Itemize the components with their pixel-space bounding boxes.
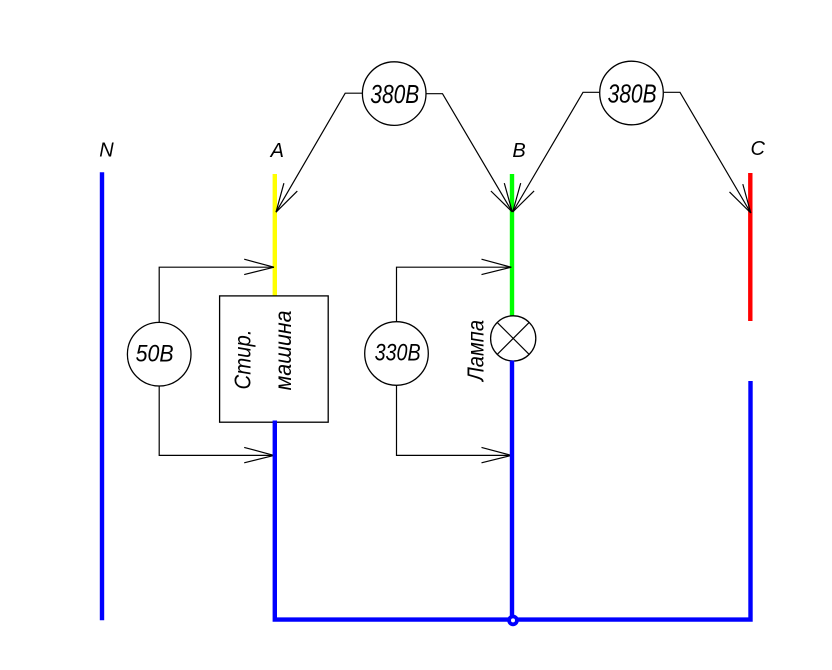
voltmeter V1 380В (between A and B) xyxy=(362,62,426,126)
wire phase B (green vertical) xyxy=(510,174,514,317)
svg-text:50В: 50В xyxy=(136,341,174,368)
svg-text:Стир.: Стир. xyxy=(230,330,256,390)
wire N neutral (blue vertical) xyxy=(100,172,104,620)
svg-text:Лампа: Лампа xyxy=(463,320,489,383)
wire phase A (yellow vertical) xyxy=(273,174,277,297)
wire V3 bottom lead to washer output (arrow right) xyxy=(159,386,274,463)
svg-text:машина: машина xyxy=(270,310,296,390)
wire V4 bottom lead to lamp output (arrow right) xyxy=(397,385,512,463)
svg-text:A: A xyxy=(270,140,284,162)
svg-text:N: N xyxy=(99,140,114,162)
wire V3 top lead to phase A (arrow right) xyxy=(159,259,274,322)
wire V2 to C (with open arrowhead) xyxy=(664,92,751,213)
wire V1 to B (with open arrowhead) xyxy=(426,94,512,212)
svg-text:B: B xyxy=(512,140,525,162)
wire V4 top lead to phase B (arrow right) xyxy=(397,259,512,322)
wire washer bottom to neutral bus (blue) xyxy=(275,381,751,620)
washing machine box xyxy=(220,296,329,422)
svg-text:380В: 380В xyxy=(608,80,657,108)
svg-text:C: C xyxy=(750,138,765,160)
wire V1 to A (with open arrowhead) xyxy=(276,93,362,212)
svg-text:330В: 330В xyxy=(375,340,421,367)
junction node on neutral bus xyxy=(509,617,517,625)
lamp EL1 (circle with X cross) xyxy=(491,316,536,361)
svg-text:380В: 380В xyxy=(370,81,419,109)
voltmeter V4 330В (across lamp) xyxy=(365,322,429,386)
wire V2 to B (with open arrowhead) xyxy=(513,92,600,212)
voltmeter V3 50В (across washing machine) xyxy=(127,322,191,386)
wire phase C (red vertical) xyxy=(748,173,752,321)
wire lamp bottom to neutral bus (blue) xyxy=(510,361,514,620)
voltmeter V2 380В (between B and C) xyxy=(600,61,664,125)
